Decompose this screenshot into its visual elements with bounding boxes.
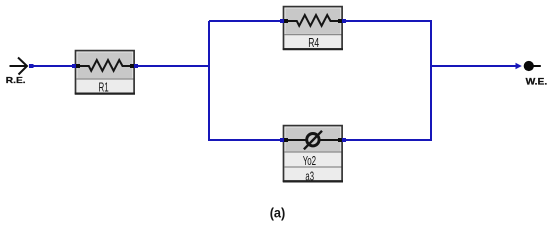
svg-text:R4: R4 xyxy=(308,35,319,50)
svg-text:a3: a3 xyxy=(305,169,314,184)
svg-text:R1: R1 xyxy=(99,80,109,95)
svg-text:R.E.: R.E. xyxy=(6,75,26,85)
svg-text:(a): (a) xyxy=(270,204,286,220)
svg-text:W.E.: W.E. xyxy=(526,76,548,86)
svg-text:Yo2: Yo2 xyxy=(303,153,316,168)
